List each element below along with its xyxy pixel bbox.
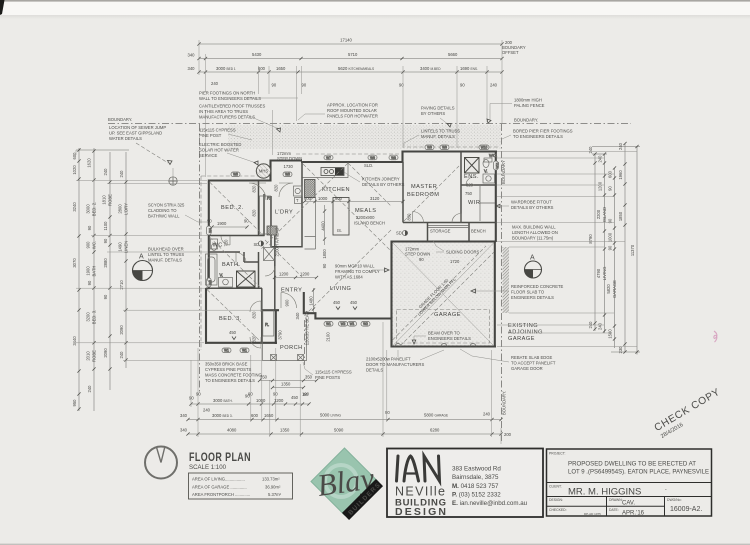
- svg-text:450: 450: [229, 330, 237, 335]
- bed2 robe shelf: [260, 196, 272, 235]
- svg-text:2100H A/HEAD: 2100H A/HEAD: [275, 228, 280, 257]
- window W11 ens: [494, 161, 500, 170]
- svg-text:90: 90: [322, 263, 327, 268]
- svg-text:2880: 2880: [103, 258, 108, 268]
- svg-text:PROJECT:: PROJECT:: [549, 452, 565, 456]
- svg-text:1200: 1200: [279, 272, 289, 277]
- svg-text:PROPOSED DWELLING TO BE ERECTE: PROPOSED DWELLING TO BE ERECTED AT: [568, 461, 696, 468]
- check copy stamp: [653, 387, 726, 441]
- svg-text:ENS.: ENS.: [464, 174, 479, 180]
- svg-text:900: 900: [285, 299, 290, 307]
- bed2 north wall: [208, 179, 271, 181]
- svg-text:W1: W1: [242, 349, 247, 353]
- svg-text:90: 90: [103, 238, 108, 243]
- svg-text:SD.: SD.: [396, 231, 403, 236]
- wir door: [452, 214, 461, 223]
- svg-text:WALL TO ENGINEERS DETAILS: WALL TO ENGINEERS DETAILS: [199, 96, 261, 101]
- svg-text:MAX. BUILDING WALL: MAX. BUILDING WALL: [512, 225, 556, 230]
- svg-text:TO ACCEPT PANELIFT: TO ACCEPT PANELIFT: [511, 361, 556, 366]
- svg-text:BOUNDARY (11.75m): BOUNDARY (11.75m): [512, 236, 554, 241]
- svg-text:CYPRESS PINE POSTS: CYPRESS PINE POSTS: [205, 367, 252, 372]
- svg-text:240: 240: [483, 412, 491, 417]
- svg-text:133.73m²: 133.73m²: [262, 477, 280, 482]
- window W2b living: [361, 322, 370, 327]
- window W9b master: [440, 145, 449, 150]
- laundry south wall: [271, 246, 303, 248]
- master south wall & storage top: [403, 222, 496, 224]
- svg-text:8790: 8790: [588, 234, 593, 244]
- laundry west wall: [271, 196, 275, 311]
- bed2 diagonal: [210, 182, 264, 235]
- svg-text:E. ian.neville@inbd.com.au: E. ian.neville@inbd.com.au: [452, 500, 528, 507]
- svg-text:3000 BED 1: 3000 BED 1: [216, 66, 236, 71]
- svg-text:1850: 1850: [618, 211, 623, 221]
- svg-text:PORCH: PORCH: [280, 345, 303, 351]
- svg-text:CLIENT:: CLIENT:: [549, 485, 562, 489]
- svg-text:W10: W10: [481, 146, 488, 150]
- svg-text:MEALS: MEALS: [355, 208, 376, 214]
- svg-text:2200: 2200: [596, 209, 601, 219]
- area table: [189, 473, 293, 499]
- boundary line top: [108, 117, 631, 124]
- svg-text:W11: W11: [495, 162, 499, 169]
- svg-text:DP-AD 1075: DP-AD 1075: [584, 512, 601, 516]
- MHS hot water unit: [256, 164, 270, 178]
- 200 boundary offset: [502, 40, 526, 55]
- svg-text:120x35 T/E BEAM: 120x35 T/E BEAM: [305, 310, 310, 345]
- contact details: [452, 466, 528, 508]
- svg-text:DETAILS BY OTHERS: DETAILS BY OTHERS: [511, 205, 554, 210]
- svg-text:W2: W2: [341, 322, 346, 326]
- svg-text:1100: 1100: [103, 221, 108, 231]
- svg-text:R.: R.: [265, 322, 269, 327]
- blay builders diamond: [311, 448, 383, 520]
- svg-text:5.37m²: 5.37m²: [268, 492, 282, 497]
- svg-text:450: 450: [291, 395, 299, 400]
- svg-text:1960: 1960: [618, 170, 623, 180]
- svg-text:2090: 2090: [119, 325, 124, 335]
- svg-text:L’DRY: L’DRY: [275, 210, 293, 216]
- svg-text:BENCH: BENCH: [471, 229, 486, 234]
- ens shower: [465, 158, 480, 174]
- meals diagonal a: [303, 164, 391, 251]
- north symbol: [145, 447, 177, 479]
- svg-text:2800: 2800: [118, 204, 123, 214]
- svg-text:340: 340: [188, 53, 196, 58]
- svg-text:90: 90: [419, 257, 424, 262]
- svg-text:DETAILS BY OTHERS: DETAILS BY OTHERS: [362, 182, 405, 187]
- svg-text:1000: 1000: [256, 398, 266, 403]
- porch posts: [271, 355, 304, 361]
- svg-text:BED. 2.: BED. 2.: [92, 202, 97, 216]
- svg-text:3400 M.BED: 3400 M.BED: [420, 66, 441, 71]
- hall/bath wall: [244, 252, 259, 288]
- garage dashed slab rect: [397, 310, 490, 344]
- svg-text:BED. 3.: BED. 3.: [219, 316, 242, 322]
- svg-text:ROOF MOUNTED SOLAR: ROOF MOUNTED SOLAR: [327, 108, 377, 113]
- bed3 door upper: [250, 301, 261, 312]
- svg-text:900: 900: [335, 196, 343, 201]
- svg-text:BED. 2.: BED. 2.: [221, 205, 244, 211]
- svg-text:Bairnsdale, 3875: Bairnsdale, 3875: [452, 474, 499, 481]
- svg-text:AREA FRONTPORCH .............: AREA FRONTPORCH .............: [192, 492, 250, 497]
- left extension lines: [76, 150, 262, 361]
- svg-text:WARDROBE FITOUT: WARDROBE FITOUT: [511, 200, 552, 205]
- svg-text:BOUNDARY: BOUNDARY: [501, 160, 506, 184]
- svg-text:APPROX. LOCATION FOR: APPROX. LOCATION FOR: [327, 103, 378, 108]
- svg-text:240: 240: [588, 321, 593, 329]
- svg-text:L’DRY: L’DRY: [124, 203, 129, 215]
- bed2 1900 dim: [212, 226, 247, 228]
- svg-text:DESIGN:: DESIGN:: [549, 498, 563, 502]
- window W5 bed2: [231, 172, 240, 177]
- svg-text:IN THIS AREA TO TRUSS: IN THIS AREA TO TRUSS: [199, 109, 248, 114]
- right labels: [588, 142, 635, 353]
- svg-text:ELECTRIC BOOSTED: ELECTRIC BOOSTED: [199, 142, 241, 147]
- svg-text:PALING FENCE: PALING FENCE: [514, 103, 545, 108]
- svg-text:11370: 11370: [630, 244, 635, 256]
- porch mini dims: [196, 375, 318, 397]
- entry step walls: [304, 292, 317, 320]
- svg-text:90: 90: [399, 83, 404, 88]
- bath door: [236, 253, 246, 263]
- svg-text:240: 240: [87, 385, 92, 393]
- svg-text:W2: W2: [363, 322, 368, 326]
- svg-text:LOCATION OF SEWER JUMP: LOCATION OF SEWER JUMP: [109, 125, 166, 130]
- svg-text:MHS: MHS: [259, 169, 269, 174]
- svg-text:CAV.: CAV.: [622, 501, 635, 507]
- svg-text:FLOOR PLAN: FLOOR PLAN: [189, 452, 251, 464]
- svg-text:90: 90: [273, 392, 278, 397]
- svg-text:90: 90: [608, 186, 613, 191]
- svg-text:5090: 5090: [334, 428, 344, 433]
- svg-text:GARAGE: GARAGE: [612, 280, 617, 298]
- bed3 south wall: [205, 342, 277, 344]
- svg-text:SD.: SD.: [254, 242, 261, 247]
- svg-text:A: A: [530, 255, 535, 262]
- svg-text:5800 GARAGE: 5800 GARAGE: [424, 413, 448, 418]
- master north wall: [403, 152, 498, 163]
- svg-text:5000 LIVING: 5000 LIVING: [320, 413, 341, 418]
- svg-text:W9: W9: [442, 146, 447, 150]
- svg-text:CHECKED:: CHECKED:: [549, 508, 567, 512]
- boundary line right: [501, 124, 507, 441]
- island bench: [333, 198, 349, 236]
- svg-text:1490: 1490: [118, 242, 123, 252]
- svg-text:BEAM OVER TO: BEAM OVER TO: [428, 331, 460, 336]
- svg-text:DWG/No:: DWG/No:: [667, 498, 682, 502]
- window W1 bed3: [222, 348, 231, 353]
- svg-text:240: 240: [119, 351, 124, 359]
- svg-text:90: 90: [103, 294, 108, 299]
- door arcs: [221, 177, 474, 348]
- svg-text:BATH.: BATH.: [222, 262, 241, 268]
- robe/hall wall: [263, 194, 265, 236]
- svg-text:383 Eastwood Rd: 383 Eastwood Rd: [452, 466, 501, 473]
- window W6 kitchen: [368, 155, 377, 160]
- svg-text:240: 240: [119, 170, 124, 178]
- svg-text:WIR: WIR: [468, 200, 480, 206]
- svg-text:BATH: BATH: [92, 266, 97, 277]
- top extension lines: [199, 40, 502, 177]
- svg-text:90: 90: [248, 392, 253, 397]
- svg-text:2010: 2010: [86, 351, 91, 361]
- svg-text:ENGINEERS DETAILS: ENGINEERS DETAILS: [511, 295, 554, 300]
- svg-text:240: 240: [203, 408, 211, 413]
- svg-text:90: 90: [460, 83, 465, 88]
- svg-text:115x115 CYPRESS: 115x115 CYPRESS: [199, 128, 236, 133]
- top dim row 3: [188, 66, 504, 88]
- svg-text:340: 340: [180, 428, 188, 433]
- svg-text:3440: 3440: [72, 336, 77, 346]
- svg-text:820: 820: [466, 183, 474, 188]
- truss dashed diagonals: [207, 163, 459, 342]
- trough laundry: [294, 186, 303, 196]
- svg-text:1020: 1020: [72, 165, 77, 175]
- svg-text:W1: W1: [350, 322, 355, 326]
- entry 1200 1200: [275, 277, 317, 279]
- garage north wall / storage band: [392, 240, 496, 242]
- hall arc: [265, 266, 275, 276]
- section marker A right: [525, 255, 542, 279]
- svg-text:ISLAND: ISLAND: [602, 207, 607, 222]
- garage concrete stipple: [393, 243, 494, 347]
- living south wall: [316, 317, 393, 319]
- svg-text:1720: 1720: [450, 259, 460, 264]
- svg-text:GARAGE DOOR: GARAGE DOOR: [511, 366, 543, 371]
- svg-text:SERVICE: SERVICE: [199, 153, 218, 158]
- east wall master/storage: [495, 151, 497, 243]
- svg-text:240: 240: [598, 322, 603, 330]
- svg-text:PINE POST: PINE POST: [199, 133, 222, 138]
- svg-text:WC.: WC.: [489, 153, 497, 158]
- svg-text:1690 ENS.: 1690 ENS.: [460, 66, 478, 71]
- svg-text:ENGINEERS DETAILS: ENGINEERS DETAILS: [428, 336, 471, 341]
- window W10 master: [479, 145, 489, 150]
- svg-text:2090: 2090: [103, 348, 108, 358]
- window W1 bed3b: [240, 348, 249, 353]
- svg-text:340: 340: [180, 413, 188, 418]
- kitchen/meals north wall: [301, 161, 404, 163]
- entry door: [281, 293, 297, 309]
- svg-text:1000: 1000: [608, 232, 613, 242]
- svg-text:CLADDING TO: CLADDING TO: [148, 208, 177, 213]
- right dim column lines: [592, 142, 640, 355]
- svg-text:3000 BED 3.: 3000 BED 3.: [212, 413, 233, 418]
- svg-text:W1: W1: [326, 322, 331, 326]
- svg-text:LINTELS TO TRUSS: LINTELS TO TRUSS: [421, 129, 460, 134]
- svg-text:BOUNDARY.: BOUNDARY.: [502, 391, 507, 415]
- svg-text:90: 90: [87, 225, 92, 230]
- bottom row B: [180, 410, 503, 421]
- svg-text:BY OTHERS: BY OTHERS: [421, 111, 445, 116]
- svg-text:DETAILS: DETAILS: [366, 368, 383, 373]
- svg-text:MASS CONCRETE FOOTING: MASS CONCRETE FOOTING: [205, 373, 262, 378]
- west wall bed3: [205, 288, 207, 344]
- svg-text:900: 900: [86, 241, 91, 249]
- svg-text:BORED PIER FIER FOOTINGS: BORED PIER FIER FOOTINGS: [513, 129, 573, 134]
- svg-text:1200: 1200: [300, 272, 310, 277]
- svg-text:90: 90: [272, 83, 277, 88]
- bed2 south wall: [209, 235, 265, 237]
- svg-text:BED. 3.: BED. 3.: [92, 310, 97, 324]
- window W7 kitchen: [324, 155, 333, 160]
- ian neville building design block: [387, 449, 543, 519]
- svg-text:W9: W9: [427, 146, 432, 150]
- svg-text:1000: 1000: [318, 196, 328, 201]
- svg-text:PINE POSTS: PINE POSTS: [315, 375, 340, 380]
- svg-text:1350: 1350: [281, 382, 291, 387]
- wir shelf: [480, 186, 495, 221]
- svg-text:SLIDING DOORS: SLIDING DOORS: [446, 250, 479, 255]
- svg-text:1650: 1650: [276, 66, 286, 71]
- living diagonal: [303, 230, 391, 317]
- project title block: [547, 449, 712, 517]
- window W8 meals: [389, 155, 398, 160]
- eave dashed line around house: [201, 147, 498, 350]
- kitchen dim row: [305, 201, 404, 203]
- kitchen west wall: [301, 161, 303, 248]
- laundry step wall: [271, 161, 303, 182]
- svg-text:240: 240: [103, 168, 108, 176]
- garage east wall: [494, 241, 496, 348]
- garage door rebate marks: [395, 344, 476, 347]
- svg-text:MANUF. DETAILS: MANUF. DETAILS: [148, 258, 182, 263]
- svg-text:4080: 4080: [227, 428, 237, 433]
- scan corner wedge: [0, 0, 5, 15]
- garage west wall: [390, 241, 392, 348]
- svg-text:340: 340: [295, 312, 300, 320]
- svg-text:450: 450: [350, 300, 358, 305]
- fridge hatched box kitchen: [305, 180, 316, 198]
- svg-text:850: 850: [407, 213, 412, 221]
- svg-text:ISLAND BENCH: ISLAND BENCH: [354, 221, 385, 226]
- svg-text:230: 230: [618, 346, 623, 354]
- svg-text:TO ENGINEERS DETAILS: TO ENGINEERS DETAILS: [513, 134, 563, 139]
- svg-text:BOUNDARY.: BOUNDARY.: [514, 118, 538, 123]
- svg-text:W5: W5: [285, 173, 290, 177]
- svg-text:90: 90: [207, 219, 212, 224]
- svg-text:3120: 3120: [370, 196, 380, 201]
- garage south wall: [392, 345, 497, 347]
- svg-text:450: 450: [333, 300, 341, 305]
- svg-text:LIVING: LIVING: [602, 267, 607, 281]
- master diagonal: [404, 166, 459, 221]
- svg-text:SCYON STRIA 325: SCYON STRIA 325: [148, 203, 185, 208]
- svg-text:UP. SEE EAST GIPPSLAND: UP. SEE EAST GIPPSLAND: [109, 131, 162, 136]
- smoke detectors: [254, 241, 264, 247]
- svg-text:200: 200: [504, 432, 512, 437]
- svg-text:BOUNDARY.: BOUNDARY.: [108, 117, 132, 122]
- svg-text:16009-A2.: 16009-A2.: [670, 506, 702, 513]
- porch slab: [263, 311, 307, 361]
- svg-text:STEP DOWN: STEP DOWN: [277, 156, 302, 161]
- window W9 master: [425, 145, 434, 150]
- svg-text:SLD.: SLD.: [364, 163, 373, 168]
- svg-text:90: 90: [189, 396, 194, 401]
- bed3 robe shelf: [263, 310, 274, 336]
- svg-text:REINFORCED CONCRETE: REINFORCED CONCRETE: [511, 284, 564, 289]
- svg-text:CANTILEVERED ROOF TRUSSES: CANTILEVERED ROOF TRUSSES: [199, 104, 265, 109]
- svg-text:820: 820: [252, 335, 257, 343]
- svg-text:PANELS FOR HOTWATER: PANELS FOR HOTWATER: [327, 114, 378, 119]
- svg-text:PAVING DETAILS: PAVING DETAILS: [421, 106, 455, 111]
- laundry door: [279, 183, 293, 197]
- svg-text:LENGTH ALLOWED ON: LENGTH ALLOWED ON: [512, 230, 558, 235]
- svg-text:600: 600: [304, 196, 312, 201]
- svg-text:3070: 3070: [72, 258, 77, 268]
- svg-text:V.: V.: [220, 272, 224, 277]
- interior dims: [207, 151, 474, 365]
- robe end hatched: [267, 226, 277, 235]
- top dim row 2: [188, 52, 504, 60]
- svg-text:3240: 3240: [72, 202, 77, 212]
- svg-text:240: 240: [618, 142, 623, 150]
- bed3 east wall: [261, 288, 263, 343]
- window W4 west wall: [207, 226, 213, 235]
- svg-text:90: 90: [385, 410, 390, 415]
- top dim row 17140: [197, 38, 503, 46]
- svg-text:DRAWN:: DRAWN:: [609, 498, 623, 502]
- master/ens wall: [461, 152, 496, 223]
- wc door: [221, 236, 230, 245]
- svg-text:WITH AS.1684: WITH AS.1684: [335, 275, 363, 280]
- svg-text:DOOR TO MANUFACTURERS: DOOR TO MANUFACTURERS: [366, 362, 424, 367]
- svg-text:STORAGE: STORAGE: [430, 229, 451, 234]
- svg-text:T: T: [296, 198, 299, 203]
- linen hall: [264, 248, 275, 261]
- T box laundry: [295, 198, 302, 204]
- svg-text:1900: 1900: [217, 221, 227, 226]
- bed2 robe wall: [258, 181, 260, 236]
- svg-text:ENTRY: ENTRY: [281, 288, 302, 294]
- bed3/bath jog: [206, 288, 210, 290]
- svg-text:W4: W4: [208, 228, 212, 233]
- svg-text:V.: V.: [484, 169, 488, 174]
- svg-text:5820: 5820: [606, 284, 611, 294]
- svg-text:115x115 CYPRESS: 115x115 CYPRESS: [315, 370, 352, 375]
- svg-text:STEP DOWN: STEP DOWN: [405, 252, 430, 257]
- svg-text:90: 90: [608, 245, 613, 250]
- svg-text:GARAGE: GARAGE: [508, 336, 535, 342]
- bed2 door: [249, 183, 266, 200]
- svg-text:750: 750: [465, 191, 473, 196]
- svg-text:ROBE: ROBE: [108, 194, 113, 206]
- svg-text:REBATE SLAB EDGE: REBATE SLAB EDGE: [511, 355, 553, 360]
- svg-text:1200: 1200: [274, 398, 284, 403]
- svg-text:W5: W5: [233, 173, 238, 177]
- svg-text:FLOOR SLAB TO: FLOOR SLAB TO: [511, 290, 545, 295]
- svg-text:240: 240: [598, 155, 603, 163]
- window W1 living: [324, 322, 333, 327]
- window W1b living: [348, 322, 357, 327]
- svg-text:90: 90: [302, 83, 307, 88]
- svg-text:OFFSET: OFFSET: [502, 50, 519, 55]
- svg-text:17140: 17140: [340, 38, 352, 43]
- pink pen mark: [714, 331, 717, 342]
- svg-text:1620: 1620: [87, 158, 92, 168]
- bottom row C: [180, 428, 512, 438]
- svg-text:1500: 1500: [608, 329, 613, 339]
- svg-text:1800mm HIGH: 1800mm HIGH: [514, 98, 542, 103]
- master west wall: [402, 162, 404, 223]
- svg-text:LOT 9 .(PS649954S). EATON PLAC: LOT 9 .(PS649954S). EATON PLACE, PAYNESV…: [568, 469, 709, 476]
- svg-text:1730: 1730: [284, 164, 294, 169]
- svg-text:MASTER: MASTER: [411, 184, 437, 190]
- svg-text:90: 90: [244, 219, 249, 224]
- bath south / bed3 north wall: [206, 287, 262, 289]
- svg-text:3200: 3200: [86, 312, 91, 322]
